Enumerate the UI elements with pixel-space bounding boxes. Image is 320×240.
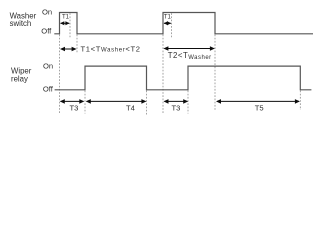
svg-text:relay: relay <box>11 75 28 84</box>
wire measurement arrow TWasher (pulse 1) <box>60 47 77 52</box>
wire T1 double arrow (pulse 2) <box>164 21 172 25</box>
wire wiper-relay waveform <box>55 66 312 90</box>
svg-text:T1<TWasher<T2: T1<TWasher<T2 <box>81 44 141 53</box>
svg-text:T2<TWasher: T2<TWasher <box>168 51 212 61</box>
wire T3 arrow (second) <box>164 99 189 104</box>
wire dashed T1 end marker (pulse 1) <box>69 13 71 38</box>
svg-text:On: On <box>43 62 53 71</box>
wire T4 arrow <box>86 99 147 104</box>
wire measurement arrow TWasher (pulse 2) <box>163 46 215 51</box>
svg-text:Off: Off <box>43 85 54 94</box>
wire washer-switch waveform <box>54 13 313 34</box>
wire dashed guide at pulse1 fall <box>76 35 78 53</box>
svg-text:On: On <box>42 8 52 17</box>
wire dashed guide at wiper pulse1 fall <box>146 91 148 115</box>
svg-text:T1: T1 <box>62 15 70 21</box>
wire T5 arrow <box>216 99 300 104</box>
wire dashed guide at wiper pulse2 fall <box>299 91 301 111</box>
wire dashed guide at pulse1 rise <box>59 35 61 115</box>
svg-text:T3: T3 <box>70 104 79 113</box>
svg-text:T1: T1 <box>164 15 172 21</box>
wire dashed guide at pulse2 fall <box>214 35 216 111</box>
wire dashed guide at wiper pulse2 rise <box>187 91 189 114</box>
wire dashed T1 end marker (pulse 2) <box>171 13 173 37</box>
svg-text:switch: switch <box>10 19 32 28</box>
svg-text:T3: T3 <box>172 104 181 113</box>
wire T3 arrow (first) <box>60 99 85 104</box>
wire T1 double arrow (pulse 1) <box>60 21 70 25</box>
wire dashed guide at pulse2 rise <box>162 35 164 115</box>
svg-text:T5: T5 <box>255 104 264 113</box>
svg-text:T4: T4 <box>126 104 135 113</box>
svg-text:Off: Off <box>41 27 52 36</box>
wire dashed guide at wiper pulse1 rise <box>84 91 86 114</box>
